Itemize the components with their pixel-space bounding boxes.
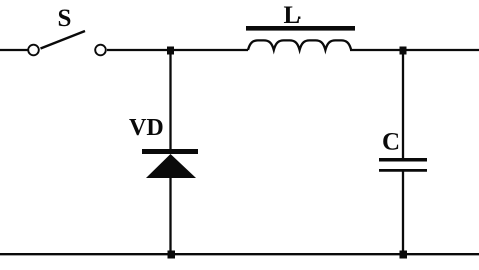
switch S right terminal circle [95,45,106,56]
switch S blade [41,31,86,49]
junction node B top [400,47,407,55]
wire switch to node A [107,49,248,51]
wire diode anode down to bottom rail [169,177,171,255]
inductor L coil winding [248,40,351,50]
diode VD cathode bar [142,149,198,154]
wire bottom rail [0,253,479,255]
svg-text:VD: VD [129,115,164,141]
wire node A down to diode cathode [169,50,171,150]
capacitor C top plate [379,158,427,162]
svg-text:C: C [382,128,400,155]
wire node B down to capacitor [402,50,404,159]
junction node B bottom [400,251,408,259]
junction node A top [167,47,174,55]
diode VD triangle [146,154,196,178]
svg-text:L: L [284,2,301,29]
junction node A bottom [168,251,176,259]
label L small dot [298,17,300,19]
inductor L core bar [246,26,355,31]
wire capacitor to bottom rail [402,170,404,255]
svg-text:S: S [58,5,72,32]
capacitor C bottom plate [379,169,427,172]
switch S left terminal circle [28,45,39,56]
wire top-left input [0,49,28,51]
wire inductor to node B [350,49,479,51]
